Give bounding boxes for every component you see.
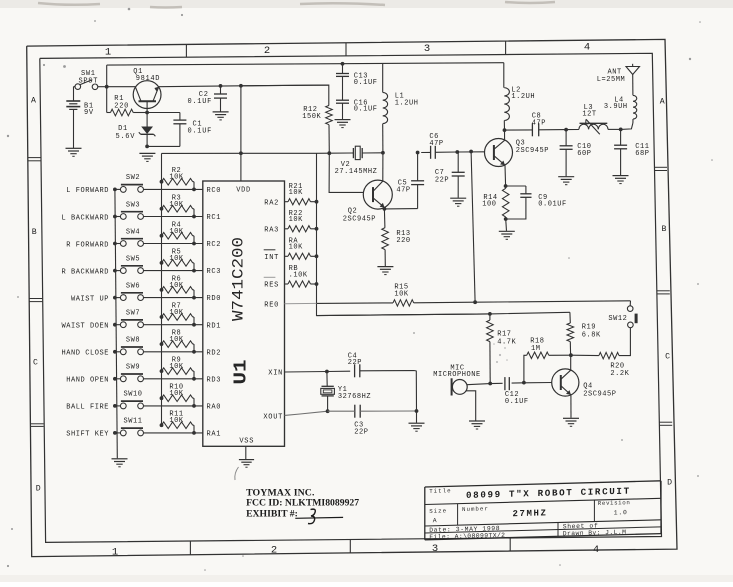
ground below switch bus: [112, 458, 128, 460]
svg-text:RC3: RC3: [207, 268, 222, 276]
capacitor C11 (68P): [620, 129, 622, 145]
wire Q1 rail to R12 corner: [241, 84, 329, 87]
svg-text:B: B: [662, 225, 667, 234]
bottom ruler tick 1-2: [189, 542, 191, 556]
wire bus to SW3: [115, 216, 120, 218]
svg-text:Q4: Q4: [583, 382, 593, 390]
svg-text:3: 3: [432, 543, 438, 555]
svg-text:0.1UF: 0.1UF: [188, 98, 213, 106]
resistor R7 (10K): [160, 315, 164, 319]
svg-text:47P: 47P: [532, 119, 546, 127]
transistor Q2 (2SC945P): [363, 180, 392, 209]
svg-text:3: 3: [424, 43, 430, 55]
svg-text:100: 100: [482, 200, 496, 208]
svg-text:RA0: RA0: [207, 404, 222, 412]
capacitor C5 (47P): [417, 153, 419, 181]
transistor Q3 (2SC945P): [485, 139, 513, 167]
stray pen arc near VSS ground: [235, 467, 239, 480]
svg-text:10K: 10K: [169, 174, 184, 182]
switch SW10 (pushbutton): [120, 403, 126, 409]
junction bias row / R17: [488, 312, 492, 316]
svg-text:9V: 9V: [84, 109, 94, 117]
junction resistor R4 to pin row: [192, 242, 196, 246]
ground below C11: [613, 175, 629, 177]
junction RE0 row / collector feed: [473, 300, 477, 304]
junction D1 bottom / C1 / ground: [145, 145, 149, 149]
wire switch ground bus: [115, 189, 117, 458]
svg-text:60P: 60P: [577, 150, 591, 158]
junction resistor R9 to pin row: [192, 377, 196, 381]
wire Q4 collector: [570, 355, 572, 370]
crystal V2 (27.145MHZ): [352, 152, 353, 154]
svg-text:R BACKWARD: R BACKWARD: [61, 268, 109, 276]
svg-text:68P: 68P: [635, 150, 649, 158]
junction resistor R10 to pin row: [192, 404, 196, 408]
junction R21 / bus: [315, 200, 319, 204]
overline for RES pin: [264, 276, 276, 278]
junction Q2 emitter: [383, 207, 387, 211]
junction resistor R8 to pin row: [192, 350, 196, 354]
wire VDD row: [162, 152, 353, 154]
capacitor C13 (0.1UF): [342, 64, 344, 74]
resistor R13 (220): [383, 209, 386, 228]
wire D1 node to C1: [147, 112, 180, 114]
ground below C2: [213, 111, 229, 113]
resistor R2 (10K): [160, 180, 164, 184]
svg-text:6.8K: 6.8K: [582, 332, 601, 340]
junction ground bus / SW6: [113, 296, 117, 300]
resistor RA (10K): [285, 255, 289, 257]
bottom ruler tick 3-4: [509, 538, 511, 551]
svg-text:22P: 22P: [435, 176, 449, 184]
capacitor C6 (47P): [430, 146, 432, 159]
junction crystal row / C5: [416, 151, 420, 155]
resistor R3 (10K): [160, 207, 164, 211]
ground below crystal loop: [409, 422, 425, 424]
wire VSS pin to ground: [245, 446, 247, 459]
svg-text:Q2: Q2: [348, 207, 358, 215]
right ruler tick C-D: [659, 421, 672, 423]
svg-text:RD0: RD0: [207, 295, 222, 303]
svg-text:10K: 10K: [169, 363, 184, 371]
wire Q2 emitter node: [383, 208, 385, 209]
svg-text:SW7: SW7: [126, 310, 140, 318]
junction ground bus / SW4: [113, 242, 117, 246]
capacitor C4 (22P): [354, 364, 356, 377]
wire SW12 to R20: [619, 328, 630, 356]
switch SW2 (pushbutton): [120, 187, 126, 193]
svg-text:150K: 150K: [302, 113, 321, 121]
resistor R8 (10K): [160, 342, 164, 346]
resistor R20 (2.2K): [599, 352, 619, 358]
svg-text:SW9: SW9: [126, 364, 140, 372]
svg-text:RC1: RC1: [207, 214, 222, 222]
svg-text:SW4: SW4: [126, 228, 140, 236]
svg-text:SW6: SW6: [126, 282, 140, 290]
wire XOUT row: [285, 411, 328, 415]
svg-text:22P: 22P: [354, 428, 368, 436]
junction resistor R6 to pin row: [192, 296, 196, 300]
svg-text:1M: 1M: [531, 345, 541, 353]
svg-text:W741C200: W741C200: [229, 237, 247, 321]
junction Q3 emitter / R14 / C9 top: [504, 184, 508, 188]
svg-text:L=25MM: L=25MM: [597, 76, 626, 84]
resistor R9 (10K): [160, 369, 164, 373]
wire to crystal ground: [416, 411, 418, 423]
crystal Y1 (32768HZ): [326, 372, 328, 387]
svg-text:5.6V: 5.6V: [116, 133, 136, 141]
svg-text:C: C: [665, 352, 670, 361]
resistor R4 (10K): [160, 234, 164, 238]
junction SW1/rail node: [105, 85, 109, 89]
wire RE0 row corner down to SW12: [629, 301, 631, 306]
wire top rail (to C13, L1, L2): [107, 63, 504, 65]
svg-text:0.1UF: 0.1UF: [354, 79, 378, 87]
svg-text:EXHIBIT #:: EXHIBIT #:: [246, 509, 298, 520]
svg-text:10K: 10K: [169, 255, 184, 263]
svg-text:SW3: SW3: [126, 201, 140, 209]
switch SW6 (pushbutton): [120, 295, 126, 301]
resistor R15 (10K): [393, 300, 414, 306]
resistor R6 (10K): [160, 288, 164, 292]
resistor R21 (10K): [285, 201, 289, 203]
title block: [425, 481, 661, 541]
junction C3 row / ground: [415, 409, 419, 413]
ground below microphone: [469, 420, 485, 422]
capacitor C16 (0.1UF): [342, 76, 344, 100]
wire crystal row to Q3 base: [457, 151, 484, 153]
svg-text:2SC945P: 2SC945P: [516, 147, 549, 155]
junction XOUT / Y1: [326, 409, 330, 413]
wire Q4 emitter to ground: [570, 395, 572, 418]
svg-text:12T: 12T: [582, 110, 596, 118]
svg-text:XOUT: XOUT: [263, 413, 283, 421]
wire SW8 to IC pin: [144, 351, 203, 353]
ground below Q4: [563, 417, 579, 419]
resistor R5 (10K): [160, 261, 164, 265]
left ruler tick B-C: [29, 298, 42, 300]
svg-text:BALL FIRE: BALL FIRE: [66, 404, 109, 412]
junction rail / VDD drop: [239, 84, 243, 88]
junction resistor R2 to pin row: [192, 188, 196, 192]
wire SW5 to IC pin: [144, 270, 203, 272]
svg-text:D: D: [667, 478, 672, 487]
svg-text:HAND CLOSE: HAND CLOSE: [61, 350, 109, 358]
svg-text:27.145MHZ: 27.145MHZ: [335, 168, 378, 176]
wire RE0 row right: [414, 301, 631, 303]
junction C8 row / C10: [564, 128, 568, 132]
wire SW6 to IC pin: [144, 297, 203, 299]
transistor Q1 (9814D): [133, 81, 161, 109]
svg-text:VDD: VDD: [236, 186, 251, 194]
junction RB / bus: [315, 282, 319, 286]
wire SW10 to IC pin: [144, 405, 203, 407]
svg-text:RA3: RA3: [264, 226, 279, 234]
junction ground bus / SW5: [113, 269, 117, 273]
svg-text:10K: 10K: [289, 244, 304, 252]
right ruler tick B-C: [657, 290, 670, 292]
junction RA / bus: [315, 254, 319, 258]
svg-text:Number: Number: [462, 505, 489, 513]
wire Q1 rail right (emitter to C2/VDD): [159, 85, 241, 88]
svg-text:FCC ID: NLKTMI8089927: FCC ID: NLKTMI8089927: [246, 498, 359, 509]
capacitor C9 (0.01UF) parallel loop: [506, 185, 526, 187]
wire left resistor bus: [161, 153, 163, 425]
junction resistor R3 to pin row: [192, 215, 196, 219]
svg-text:2: 2: [264, 45, 270, 57]
svg-text:A: A: [433, 517, 437, 524]
left ruler tick A-B: [28, 157, 41, 159]
inductor L3 (12T tunable): [566, 129, 579, 131]
svg-text:Title: Title: [429, 487, 451, 495]
top ruler tick 2-3: [345, 43, 347, 56]
svg-text:RA2: RA2: [264, 199, 279, 207]
wire node up to top rail corner: [106, 65, 108, 87]
inductor L2 (1.2UH): [503, 63, 505, 88]
wire vertical Q3 base to RE0 row: [471, 152, 475, 303]
scanner smudges top edge: [38, 2, 555, 8]
svg-text:10K: 10K: [169, 309, 184, 317]
svg-text:0.1UF: 0.1UF: [354, 105, 378, 113]
left ruler tick C-D: [30, 423, 43, 425]
capacitor C12 (0.1UF): [504, 377, 506, 390]
capacitor C2 (0.1UF): [220, 86, 222, 94]
svg-text:RA1: RA1: [207, 431, 222, 439]
switch SW12 (pushbutton): [627, 306, 633, 312]
svg-text:10K: 10K: [169, 228, 184, 236]
wire mic return to ground: [466, 391, 476, 421]
svg-text:R FORWARD: R FORWARD: [66, 241, 109, 249]
svg-text:R17: R17: [497, 331, 511, 339]
svg-text:HAND OPEN: HAND OPEN: [66, 377, 109, 385]
svg-text:10K: 10K: [169, 390, 184, 398]
resistor R14 (100): [502, 188, 509, 217]
wire bias row (bus corner to R17/R19): [317, 312, 570, 315]
resistor R10 (10K): [160, 396, 164, 400]
svg-text:SW12: SW12: [608, 315, 627, 323]
inductor L1 (1.2UH): [382, 63, 384, 92]
svg-text:SW8: SW8: [126, 337, 140, 345]
junction crystal row / vertical feed: [469, 150, 473, 154]
svg-text:0.1UF: 0.1UF: [188, 128, 213, 136]
ground below battery B1: [66, 147, 82, 149]
junction L3 / C11: [619, 127, 623, 131]
ground below VSS: [239, 459, 254, 461]
svg-text:SW2: SW2: [126, 174, 140, 182]
wire SW11 to IC pin: [144, 432, 203, 434]
svg-text:WAIST DOEN: WAIST DOEN: [61, 323, 109, 331]
junction ground bus / SW9: [113, 377, 117, 381]
junction rail / C2: [219, 84, 223, 88]
wire Q2 collector stub: [382, 153, 384, 181]
wire C4 right corner down: [415, 371, 417, 411]
capacitor C7 (22P): [457, 152, 459, 172]
svg-text:1.2UH: 1.2UH: [511, 93, 535, 101]
switch SW1 (SPST): [75, 84, 81, 90]
svg-text:SPST: SPST: [79, 77, 99, 85]
junction mic row / R17: [488, 382, 492, 386]
svg-text:2: 2: [271, 545, 277, 557]
resistor R19 (6.8K): [569, 312, 571, 323]
svg-text:0.01UF: 0.01UF: [538, 200, 567, 208]
svg-text:.10K: .10K: [289, 271, 308, 279]
svg-text:10K: 10K: [169, 282, 184, 290]
switch SW3 (pushbutton): [120, 214, 126, 220]
switch SW9 (pushbutton): [120, 376, 126, 382]
wire XIN row: [285, 370, 351, 373]
wire R14 to ground: [505, 219, 508, 231]
svg-text:10K: 10K: [169, 201, 184, 209]
wire RE0 row (faint): [285, 302, 317, 304]
ground below R14: [499, 230, 515, 232]
junction ground bus / SW10: [113, 404, 117, 408]
wire SW7 to IC pin: [144, 324, 203, 326]
outer border frame: [27, 39, 677, 556]
svg-text:1: 1: [105, 47, 111, 59]
ground below C16: [335, 119, 351, 121]
svg-text:Size: Size: [429, 507, 447, 514]
transistor Q4 (2SC945P): [552, 369, 579, 396]
wire Q3 emitter node: [504, 165, 507, 186]
IC U1 W741C200 body: [203, 181, 285, 446]
svg-text:1.0: 1.0: [614, 509, 628, 516]
svg-text:10K: 10K: [169, 417, 184, 425]
svg-text:A: A: [660, 97, 665, 106]
svg-text:2SC945P: 2SC945P: [343, 215, 376, 223]
wire Q2 base drop: [329, 153, 363, 192]
svg-text:220: 220: [114, 102, 129, 110]
svg-text:22P: 22P: [348, 359, 362, 367]
diode D1 (zener 5.6V): [146, 113, 148, 127]
svg-text:L FORWARD: L FORWARD: [66, 187, 109, 195]
junction R14 bottom / C9 bottom / ground: [504, 217, 508, 221]
microphone MIC: [452, 380, 467, 395]
svg-text:0.1UF: 0.1UF: [505, 398, 529, 406]
junction resistor R11 to pin row: [192, 431, 196, 435]
svg-text:SW10: SW10: [123, 391, 142, 399]
right ruler tick A-B: [655, 166, 668, 168]
wire SW9 to IC pin: [144, 378, 203, 380]
svg-text:RD1: RD1: [207, 322, 222, 330]
junction R22 / bus: [315, 227, 319, 231]
wire bus to SW8: [115, 351, 120, 353]
svg-text:1: 1: [112, 547, 118, 559]
handwritten 3: [308, 509, 315, 524]
scanner smudge near mic: [493, 343, 508, 363]
wire SW1 to node, node down to R1: [98, 86, 107, 88]
svg-text:4.7K: 4.7K: [497, 339, 516, 347]
svg-text:R19: R19: [582, 324, 596, 332]
junction R19/R20/Q4 collector: [569, 353, 573, 357]
wire bus to SW7: [115, 324, 120, 326]
ground below C7: [450, 197, 466, 199]
wire battery to SW1: [73, 87, 75, 101]
svg-text:2.2K: 2.2K: [610, 370, 629, 378]
svg-text:47P: 47P: [396, 187, 410, 195]
wire bus to SW2: [115, 188, 120, 190]
junction crystal / L1 / Q2 collector: [381, 151, 385, 155]
svg-text:10K: 10K: [289, 216, 304, 224]
ground below D1: [139, 152, 155, 154]
wire C11 node to L4: [621, 123, 633, 129]
capacitor C3 (22P): [354, 405, 356, 418]
junction L2 / C8 / Q3 collector: [503, 128, 507, 132]
svg-text:D: D: [36, 485, 41, 494]
exhibit underline: [295, 516, 343, 519]
svg-text:Revision: Revision: [598, 499, 631, 507]
bottom ruler tick 2-3: [349, 540, 351, 553]
svg-text:32768HZ: 32768HZ: [338, 393, 371, 401]
switch SW7 (pushbutton): [120, 322, 126, 328]
wire right pull-up bus: [317, 153, 490, 315]
svg-text:SHIFT KEY: SHIFT KEY: [66, 431, 109, 439]
svg-text:WAIST UP: WAIST UP: [71, 295, 109, 303]
capacitor C8 (47P): [531, 123, 533, 136]
svg-text:220: 220: [396, 237, 410, 245]
resistor R18 (1M): [549, 354, 571, 356]
wire Q3 collector stub: [504, 130, 506, 140]
svg-text:1.2UH: 1.2UH: [395, 99, 419, 107]
svg-text:10K: 10K: [394, 290, 409, 298]
svg-text:RES: RES: [264, 282, 279, 290]
wire Q1 rail left (node to Q1 collector): [107, 86, 136, 88]
junction top rail / C13: [341, 62, 345, 66]
svg-text:VSS: VSS: [239, 437, 254, 445]
wire bus to SW4: [115, 243, 120, 245]
wire bus to SW5: [115, 270, 120, 272]
svg-text:47P: 47P: [429, 140, 443, 148]
top ruler tick 3-4: [505, 41, 507, 54]
svg-text:10K: 10K: [289, 189, 304, 197]
junction VDD row / R12 / Q2 base drop: [327, 151, 331, 155]
wire bus to SW6: [115, 297, 120, 299]
resistor R22 (10K): [285, 228, 289, 230]
wire Q4 base row (mic to base): [467, 384, 490, 385]
svg-text:RD3: RD3: [207, 376, 222, 384]
svg-text:2SC945P: 2SC945P: [583, 390, 616, 398]
switch SW4 (pushbutton): [120, 241, 126, 247]
ground below R13: [377, 266, 393, 268]
svg-text:10K: 10K: [169, 336, 184, 344]
svg-text:U1: U1: [232, 359, 252, 384]
junction Q1 base / R1 / D1: [145, 111, 149, 115]
wire bus to SW10: [115, 405, 120, 407]
svg-text:4: 4: [593, 544, 599, 556]
switch SW5 (pushbutton): [120, 268, 126, 274]
svg-text:4: 4: [584, 42, 590, 54]
svg-text:27MHZ: 27MHZ: [512, 508, 547, 519]
switch SW11 (pushbutton): [120, 430, 126, 436]
svg-text:SW5: SW5: [126, 255, 140, 263]
capacitor C1 (0.1UF): [179, 113, 181, 121]
junction XIN / Y1: [325, 370, 329, 374]
wire battery to ground: [73, 109, 75, 148]
junction crystal row / C7: [455, 150, 459, 154]
junction resistor R5 to pin row: [192, 269, 196, 273]
overline for INT pin: [264, 249, 276, 251]
svg-text:L BACKWARD: L BACKWARD: [61, 214, 109, 222]
svg-text:3.9UH: 3.9UH: [604, 103, 628, 111]
svg-text:RD2: RD2: [207, 349, 222, 357]
junction ground bus / SW8: [113, 350, 117, 354]
svg-text:9814D: 9814D: [136, 75, 161, 83]
wire RE0 row mid: [317, 302, 394, 305]
wire SW4 to IC pin: [144, 243, 203, 245]
switch SW8 (pushbutton): [120, 349, 126, 355]
junction ground bus / SW7: [113, 323, 117, 327]
svg-text:A: A: [31, 97, 36, 106]
wire VDD drop (rail to VDD pin): [240, 86, 242, 181]
